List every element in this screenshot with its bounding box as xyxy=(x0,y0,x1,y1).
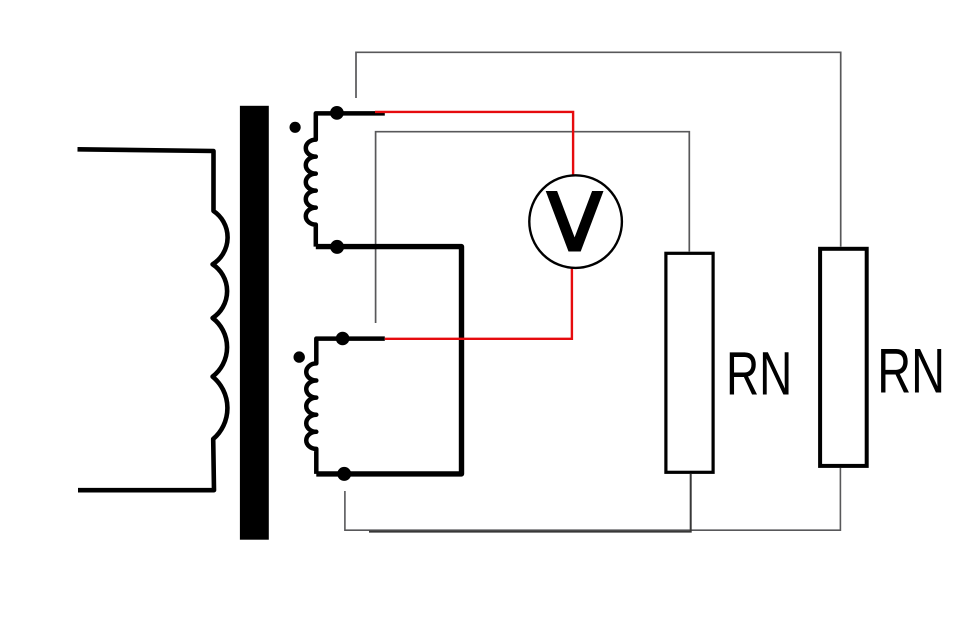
voltmeter V1 body xyxy=(529,175,622,268)
polarity dot (lower secondary) xyxy=(294,351,305,362)
polarity dot (upper secondary) xyxy=(290,122,301,133)
wire: bottom gray return (lower secondary bottom to RN2 bottom) xyxy=(345,468,841,530)
junction dot: lower secondary bottom terminal xyxy=(337,467,351,481)
svg-text:RN: RN xyxy=(726,340,792,409)
transformer core xyxy=(240,106,269,540)
junction dot: upper secondary top terminal xyxy=(330,106,344,120)
secondary winding L2 (upper) xyxy=(306,113,385,246)
wire: thick series link between secondaries xyxy=(316,247,462,474)
junction dot: lower secondary top terminal xyxy=(336,332,350,346)
wire: bottom dark return to RN1 bottom xyxy=(369,474,691,532)
wire: inner gray loop (lower secondary top area to RN1 top) xyxy=(376,132,690,323)
resistor RN1 body xyxy=(666,253,713,472)
wire: outer gray loop (secondary top terminal to RN2 top) xyxy=(356,52,841,246)
secondary winding L3 (lower) xyxy=(306,339,385,474)
svg-text:RN: RN xyxy=(877,336,945,406)
junction dot: upper secondary bottom terminal xyxy=(330,240,344,254)
wire red: upper secondary top to voltmeter xyxy=(375,112,573,175)
resistor RN2 body xyxy=(820,249,867,466)
wire red: lower secondary top to voltmeter xyxy=(385,268,572,339)
primary winding L1 xyxy=(78,149,228,490)
voltmeter V1 letter V xyxy=(546,191,604,252)
